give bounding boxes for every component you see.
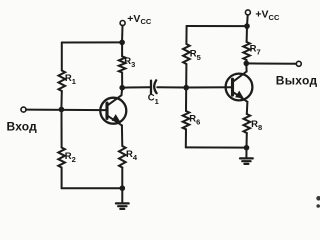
svg-text:+VCC: +VCC (127, 13, 152, 26)
wire ground stub left (121, 188, 123, 203)
wire collector node to C1 (122, 86, 149, 88)
node junction collector Q2 / R7 / output (244, 61, 250, 67)
wire bottom-left rail (62, 187, 123, 189)
svg-text:Выход: Выход (276, 74, 318, 88)
wire top-right rail (187, 25, 247, 27)
svg-text:C1: C1 (148, 93, 159, 106)
node junction bottom rail / ground right (244, 145, 250, 151)
wire R8 lower lead (246, 133, 248, 148)
ground left stage (116, 203, 129, 209)
wire R2 lower lead (61, 168, 63, 189)
node junction bottom rail / ground left (120, 185, 126, 191)
resistor R2 (58, 148, 65, 168)
node speck artifact right edge (316, 196, 320, 208)
wire output (246, 62, 296, 64)
svg-text:+VCC: +VCC (255, 9, 280, 22)
resistor R5 (183, 44, 190, 64)
svg-text:Вход: Вход (7, 120, 38, 134)
wire Vcc1 terminal to rail junction (121, 26, 123, 40)
wire R7 upper lead (246, 26, 248, 42)
wire emitter Q2 to R8 (246, 102, 249, 114)
terminal output (296, 61, 301, 66)
svg-text:R1: R1 (65, 73, 76, 86)
node junction R5 / R6 / base Q2 (183, 85, 189, 91)
wire Vcc2 terminal to rail junction (246, 15, 249, 24)
resistor R3 (119, 56, 126, 72)
terminal +Vcc right stage (245, 10, 250, 15)
wire R5 lower lead (185, 64, 187, 88)
wire bottom-right rail (186, 146, 247, 148)
wire junction to base Q2 (186, 86, 232, 88)
terminal +Vcc left stage (120, 21, 125, 26)
wire R3 upper lead (121, 42, 123, 56)
svg-text:R8: R8 (251, 119, 262, 132)
resistor R6 (183, 111, 190, 129)
wire top-left rail (62, 41, 122, 43)
wire R2 upper lead (61, 110, 63, 148)
node junction Vcc1 rail (119, 40, 125, 46)
resistor R8 (244, 114, 251, 133)
wire R1 lower lead (60, 91, 62, 109)
wire R6 lower lead (185, 129, 187, 147)
wire R1 upper lead (61, 43, 63, 71)
node junction collector Q1 / R3 / C1 (119, 85, 125, 91)
wire C1 to R5/R6 junction (157, 86, 186, 88)
node junction base Q1 / R1 / R2 (59, 107, 65, 113)
transistor Q1 (100, 95, 126, 125)
resistor R1 (59, 71, 66, 92)
wire R7 lower lead (245, 60, 247, 63)
svg-text:R7: R7 (250, 43, 261, 56)
svg-text:R5: R5 (190, 49, 201, 62)
wire R6 upper lead (185, 88, 187, 111)
ground right stage (240, 158, 253, 164)
terminal input (21, 107, 26, 112)
wire input to base Q1 (26, 109, 107, 112)
capacitor C1 (151, 80, 157, 93)
node junction Vcc2 rail (244, 23, 250, 29)
wire collector Q1 up to node (121, 88, 124, 96)
resistor R7 (243, 42, 250, 60)
wire collector Q2 up to node (245, 63, 247, 71)
wire R4 lower lead (121, 168, 123, 189)
resistor R4 (119, 146, 126, 168)
wire emitter Q1 to R4 (121, 125, 123, 146)
transistor Q2 (226, 72, 253, 102)
wire ground stub right (245, 148, 247, 159)
wire R5 upper lead (185, 26, 187, 44)
svg-text:R3: R3 (124, 56, 135, 69)
wire R3 lower lead (121, 73, 123, 88)
svg-text:R4: R4 (126, 149, 138, 162)
